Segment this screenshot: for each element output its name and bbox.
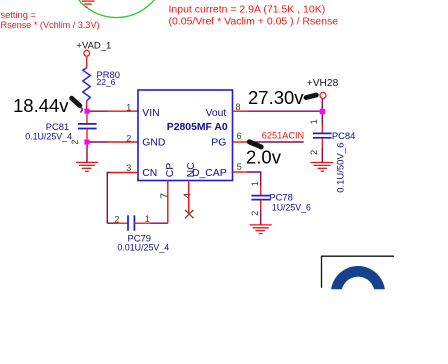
svg-text:1: 1 bbox=[249, 181, 260, 186]
svg-text:27.30v: 27.30v bbox=[248, 87, 304, 108]
svg-text:+VAD_1: +VAD_1 bbox=[76, 40, 111, 51]
svg-text:1: 1 bbox=[126, 103, 131, 113]
svg-text:6251ACIN: 6251ACIN bbox=[262, 131, 304, 141]
svg-text:0.1U/25V_4: 0.1U/25V_4 bbox=[25, 132, 72, 142]
svg-text:1: 1 bbox=[308, 119, 319, 124]
wire bbox=[86, 56, 88, 68]
svg-text:1U/25V_6: 1U/25V_6 bbox=[272, 203, 311, 213]
svg-text:0.01U/25V_4: 0.01U/25V_4 bbox=[117, 243, 169, 253]
probe mark (black marker) bbox=[249, 142, 261, 147]
wire pin 5 stub bbox=[233, 171, 248, 173]
svg-text:Input curretn = 2.9A (71.5K ,: Input curretn = 2.9A (71.5K , 10K) bbox=[169, 4, 326, 16]
svg-text:7: 7 bbox=[160, 193, 171, 199]
note: input current formula text bbox=[169, 4, 339, 28]
wire bbox=[90, 110, 108, 112]
wire bbox=[107, 173, 110, 224]
svg-text:setting =: setting = bbox=[1, 10, 36, 20]
svg-text:NC: NC bbox=[186, 162, 197, 178]
wire pin 1 stub bbox=[108, 110, 139, 112]
svg-text:1: 1 bbox=[145, 214, 150, 224]
wire bbox=[247, 172, 261, 186]
wire to ground bbox=[86, 145, 88, 163]
svg-text:PG: PG bbox=[211, 137, 226, 148]
svg-text:6: 6 bbox=[237, 131, 242, 141]
voltage regulator U1 P2805MF A0 bbox=[138, 90, 233, 181]
svg-text:Vout: Vout bbox=[205, 108, 226, 119]
svg-text:CN: CN bbox=[142, 168, 157, 179]
svg-text:2: 2 bbox=[308, 150, 319, 155]
svg-text:8: 8 bbox=[236, 102, 241, 112]
svg-text:PC81: PC81 bbox=[46, 121, 69, 132]
wire bbox=[86, 101, 88, 109]
capacitor PC79 bbox=[114, 214, 169, 253]
capacitor PC78 bbox=[249, 181, 311, 225]
wire pin 6 stub bbox=[233, 141, 249, 143]
wire / net 6251ACIN bbox=[248, 141, 304, 143]
wire pin 2 stub bbox=[108, 141, 139, 143]
note: setting formula text bbox=[1, 10, 100, 30]
wire pin 3 stub bbox=[110, 172, 138, 174]
power symbol +VAD_1 bbox=[76, 40, 111, 56]
title block border bbox=[322, 256, 395, 288]
capacitor PC84 bbox=[308, 114, 355, 193]
wire pin 4 bbox=[188, 181, 190, 214]
svg-text:2: 2 bbox=[114, 214, 119, 224]
highlight ellipse (green, partial) bbox=[68, 0, 166, 18]
wire bbox=[107, 222, 115, 224]
junction node bbox=[320, 109, 325, 114]
ground (top, partial) bbox=[82, 1, 95, 7]
resistor PR80 bbox=[83, 68, 120, 101]
svg-text:GND: GND bbox=[142, 137, 165, 148]
probe mark (black marker) bbox=[72, 98, 83, 112]
wire pin 7 bbox=[167, 181, 169, 224]
power symbol +VH28 bbox=[307, 78, 339, 99]
wire to power bbox=[321, 98, 323, 108]
svg-text:3: 3 bbox=[126, 163, 131, 173]
svg-text:Rsense * (Vchlim / 3.3V): Rsense * (Vchlim / 3.3V) bbox=[1, 20, 100, 30]
ground bbox=[76, 162, 98, 171]
wire bbox=[248, 110, 320, 112]
wire pin 8 stub bbox=[233, 110, 249, 112]
capacitor PC81 bbox=[25, 114, 96, 145]
svg-text:0.1U/50V_6: 0.1U/50V_6 bbox=[335, 143, 346, 193]
ground bbox=[250, 225, 272, 234]
svg-text:18.44v: 18.44v bbox=[13, 95, 69, 116]
wire bbox=[90, 141, 108, 143]
junction node bbox=[84, 139, 89, 144]
wire bbox=[150, 222, 168, 224]
svg-text:2.0v: 2.0v bbox=[246, 146, 282, 167]
svg-text:2: 2 bbox=[249, 211, 260, 216]
svg-text:(0.05/Vref * Vaclim + 0.05 ) /: (0.05/Vref * Vaclim + 0.05 ) / Rsense bbox=[169, 15, 339, 27]
svg-text:P2805MF A0: P2805MF A0 bbox=[167, 122, 228, 133]
ground bbox=[311, 163, 334, 172]
svg-text:2: 2 bbox=[70, 140, 80, 145]
svg-text:CP: CP bbox=[165, 163, 176, 178]
svg-text:VIN: VIN bbox=[142, 108, 159, 119]
logo arc bbox=[331, 266, 385, 293]
svg-text:5: 5 bbox=[237, 162, 242, 172]
svg-text:PC78: PC78 bbox=[269, 191, 292, 202]
svg-text:22_6: 22_6 bbox=[97, 77, 116, 87]
probe mark (black marker) bbox=[306, 95, 316, 98]
junction node bbox=[84, 109, 89, 114]
svg-text:+VH28: +VH28 bbox=[307, 78, 339, 89]
svg-text:2: 2 bbox=[126, 133, 131, 143]
svg-text:PC84: PC84 bbox=[332, 130, 355, 141]
no-connect X bbox=[185, 210, 194, 218]
